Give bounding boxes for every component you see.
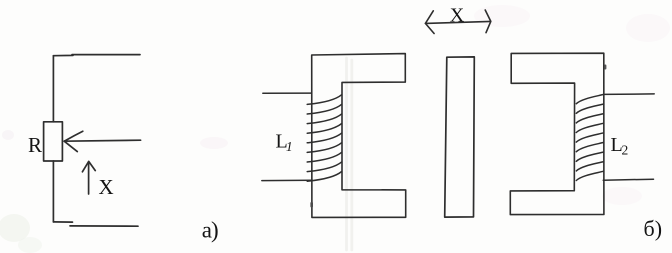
wire: L1 lower lead: [262, 179, 312, 181]
core: left C-core outline: [312, 54, 406, 218]
wiper arrowhead lower barb: [64, 141, 77, 151]
svg-text:L2: L2: [611, 134, 629, 158]
svg-text:X: X: [450, 5, 465, 27]
resistor R (potentiometer body): [44, 122, 63, 161]
wire: L1 upper lead: [263, 92, 312, 94]
coil L2 (9 turns on right core leg): [576, 94, 603, 180]
scan artifact: faint vertical fold bands: [347, 58, 352, 250]
arrow X: up-arrow head: [82, 161, 95, 171]
svg-text:X: X: [99, 175, 114, 199]
double arrow right head: [485, 10, 491, 33]
double arrow left head: [425, 11, 434, 34]
wire: top lead horizontal: [53, 55, 140, 56]
wire: bottom lead horizontal: [53, 222, 138, 226]
arrow X: displacement up-arrow shaft: [88, 162, 90, 194]
scan artifact: ink knot on left core edge: [310, 202, 313, 208]
svg-text:L1: L1: [276, 130, 293, 154]
svg-text:б): б): [644, 216, 663, 241]
wiper arrow shaft (middle lead): [64, 140, 140, 141]
wire: L2 upper lead: [604, 93, 655, 96]
wiper arrowhead upper barb: [64, 131, 83, 141]
svg-text:R: R: [28, 133, 42, 157]
svg-text:a): a): [202, 218, 218, 243]
scan artifact: ink speck on right core edge: [604, 65, 606, 70]
coil L1 (9 turns on left core leg): [307, 95, 342, 182]
double arrow X (air gap) shaft: [425, 10, 490, 34]
wire: vertical below resistor: [52, 161, 54, 222]
wire: vertical from top lead to resistor: [52, 56, 54, 122]
wire: L2 lower lead: [603, 179, 653, 180]
core: right C-core outline: [510, 53, 604, 214]
movable plate (ferromagnetic strip): [445, 57, 475, 217]
